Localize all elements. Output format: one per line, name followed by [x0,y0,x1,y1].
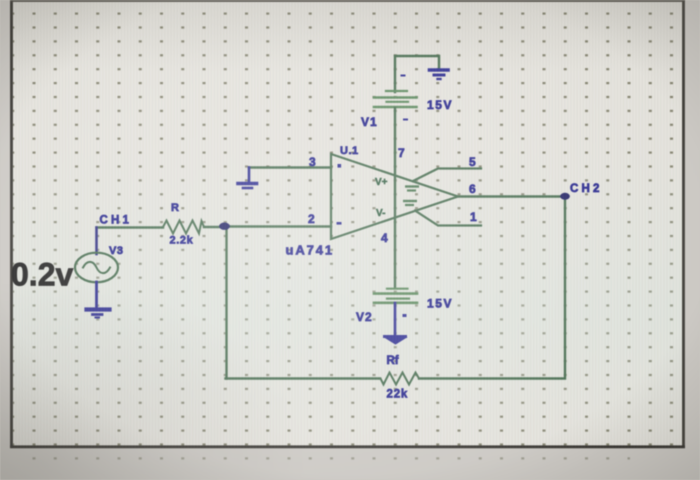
AC source V3 ellipse [75,253,118,283]
green mark lower (offset) [403,201,417,205]
wire source V3 to CH1 corner [95,228,98,255]
canvas border frame left [10,0,13,448]
canvas border frame top [10,0,685,2]
wire pin 6 output [458,195,565,197]
canvas border frame right [682,0,685,447]
sine wave inside V3 [83,262,110,273]
ground arrow (V2) [385,337,407,345]
wire R to junction [204,226,226,228]
ground (pin 3) [238,168,257,189]
wire pin 1 [415,211,481,226]
wire V3 to ground [95,282,98,307]
green mark upper (offset) [405,187,419,191]
op-amp + input mark [338,164,342,168]
resistor Rf zigzag [380,373,419,385]
greenish tint band [11,150,685,448]
faint dots below frame (reflection) [30,449,630,471]
V1 polarity marks [401,75,409,121]
wire pin 2 [226,225,332,227]
wire output down to feedback [419,197,565,379]
wire left vertical (junction to feedback) [225,227,227,379]
ground (V3) [87,310,110,318]
top shading [11,2,685,72]
wire pin 3 [249,166,331,168]
junction node at CH2 [560,193,570,200]
ground (top right, V1) [430,70,449,79]
V2 polarity mark [403,314,407,317]
op-amp - input mark [337,222,342,225]
wire V2 to ground [394,303,397,336]
battery V2 [374,289,417,303]
wire pin7 to pin4 vertical through op-amp [394,108,396,287]
battery V1 [374,91,417,107]
wire CH1 input [97,226,164,228]
canvas border frame bottom [10,445,685,448]
wire feedback bottom left [226,377,381,379]
junction node at R / pin2 [219,223,230,230]
wire V1 top loop [395,56,439,92]
op-amp U1 triangle [331,154,458,239]
resistor R zigzag [163,221,204,234]
wire pin 5 [413,169,481,182]
